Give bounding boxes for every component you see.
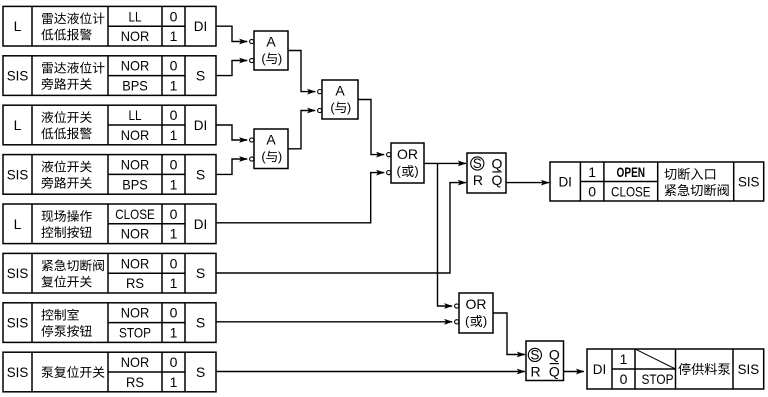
wire: row4 S output to AND A2 input 2	[216, 156, 254, 174]
svg-text:CLOSE: CLOSE	[115, 206, 155, 222]
svg-text:DI: DI	[558, 174, 572, 190]
svg-text:A: A	[335, 83, 345, 99]
svg-text:NOR: NOR	[121, 305, 150, 321]
wire: row1 DI output to AND A1 input 1	[216, 26, 254, 44]
output block O1: DI 1=OPEN 0=CLOSE 切断入口紧急切断阀 SIS	[550, 162, 764, 201]
svg-text:1: 1	[170, 28, 178, 44]
svg-text:SIS: SIS	[7, 364, 29, 380]
output block O2: DI 1=blank(N/A) 0=STOP 停供料泵 SIS	[587, 349, 764, 389]
svg-text:): )	[414, 164, 418, 179]
svg-text:0: 0	[170, 8, 178, 24]
svg-text:DI: DI	[194, 18, 208, 34]
svg-text:L: L	[14, 117, 22, 133]
SR flip-flop FF1 (set-dominant): S/R inputs, Q/Qbar outputs	[467, 153, 506, 193]
svg-text:L: L	[14, 216, 22, 232]
svg-text:(: (	[465, 314, 470, 329]
wire: A2 output to AND A3 input 2	[288, 108, 322, 149]
wire: row5 DI output to OR1 input 2	[216, 170, 391, 223]
svg-text:1: 1	[170, 78, 178, 94]
svg-text:A: A	[266, 34, 276, 50]
wire: OR2 output down to FF2 S input	[493, 313, 525, 357]
svg-text:STOP: STOP	[642, 371, 674, 387]
svg-text:0: 0	[170, 58, 178, 74]
input block row 7: SIS 控制室停泵按钮 NOR/STOP -> S	[3, 303, 216, 343]
svg-text:DI: DI	[194, 117, 208, 133]
svg-text:): )	[278, 149, 282, 164]
wire: branch from OR1 output node down to OR2 input 1	[438, 163, 459, 309]
svg-text:S: S	[196, 68, 205, 84]
svg-text:OR: OR	[466, 296, 487, 312]
svg-text:Q: Q	[492, 155, 503, 171]
svg-text:0: 0	[170, 107, 178, 123]
SR flip-flop FF2 (set-dominant): S/R inputs, Q/Qbar outputs	[526, 341, 564, 381]
svg-text:NOR: NOR	[121, 226, 150, 242]
wire: row3 DI output to AND A2 input 1	[216, 125, 254, 143]
svg-text:DI: DI	[593, 361, 607, 377]
svg-text:SIS: SIS	[738, 361, 760, 377]
svg-text:S: S	[196, 315, 205, 331]
svg-text:Q: Q	[549, 347, 560, 363]
svg-text:(: (	[397, 164, 402, 179]
svg-text:(: (	[261, 51, 266, 66]
svg-text:0: 0	[170, 255, 178, 271]
input block row 3: L 液位开关低低报警 LL/NOR -> DI	[3, 105, 216, 145]
svg-text:LL: LL	[129, 107, 142, 123]
svg-text:RS: RS	[126, 374, 144, 390]
svg-text:): )	[347, 100, 351, 115]
input block row 8: SIS 泵复位开关 NOR/RS -> S	[3, 352, 216, 392]
svg-text:DI: DI	[194, 216, 208, 232]
svg-text:1: 1	[170, 374, 178, 390]
svg-text:0: 0	[588, 183, 596, 199]
svg-text:Q: Q	[549, 364, 560, 380]
svg-text:0: 0	[170, 206, 178, 222]
svg-text:Q: Q	[492, 172, 503, 188]
svg-text:1: 1	[170, 325, 178, 341]
svg-text:SIS: SIS	[738, 174, 760, 190]
wire: FF1 Q output to output block DI (ESD valve)	[506, 180, 550, 186]
svg-text:NOR: NOR	[121, 157, 150, 173]
wire: row7 S output to OR2 input 2	[216, 319, 459, 325]
wire: A3 output to OR1 input 1	[358, 100, 391, 158]
wire: row6 S output up to FF1 R input	[216, 180, 466, 273]
svg-text:LL: LL	[129, 8, 142, 24]
svg-text:A: A	[266, 132, 276, 148]
AND gate A3	[322, 80, 358, 119]
svg-text:(: (	[330, 100, 335, 115]
AND gate A1	[254, 31, 288, 70]
input block row 1: L 雷达液位计低低报警 LL/NOR -> DI	[3, 6, 216, 46]
OR gate OR2	[459, 293, 493, 333]
svg-text:SIS: SIS	[7, 166, 29, 182]
svg-text:(: (	[261, 149, 266, 164]
input block row 2: SIS 雷达液位计旁路开关 NOR/BPS -> S	[3, 56, 216, 96]
wire: FF2 Q output to output block DI (feed pump)	[564, 369, 585, 375]
svg-text:SIS: SIS	[7, 315, 29, 331]
svg-text:NOR: NOR	[121, 354, 150, 370]
AND gate A2	[254, 129, 288, 169]
svg-text:RS: RS	[126, 275, 144, 291]
svg-text:S: S	[196, 265, 205, 281]
svg-text:R: R	[473, 172, 483, 188]
svg-text:1: 1	[620, 351, 628, 367]
svg-text:NOR: NOR	[121, 28, 150, 44]
svg-text:CLOSE: CLOSE	[611, 183, 651, 199]
svg-text:0: 0	[170, 157, 178, 173]
svg-text:NOR: NOR	[121, 127, 150, 143]
input block row 5: L 现场操作控制按钮 CLOSE/NOR -> DI	[3, 204, 216, 244]
svg-text:S: S	[196, 166, 205, 182]
svg-text:SIS: SIS	[7, 265, 29, 281]
OR gate OR1	[391, 143, 424, 183]
svg-text:1: 1	[170, 275, 178, 291]
svg-text:1: 1	[170, 127, 178, 143]
svg-text:OR: OR	[397, 146, 418, 162]
svg-text:BPS: BPS	[122, 78, 148, 94]
svg-text:L: L	[14, 18, 22, 34]
svg-text:R: R	[530, 364, 540, 380]
wire: A1 output to AND A3 input 1	[288, 51, 322, 95]
input block row 4: SIS 液位开关旁路开关 NOR/BPS -> S	[3, 155, 216, 195]
svg-text:S: S	[196, 364, 205, 380]
svg-text:0: 0	[170, 354, 178, 370]
svg-text:1: 1	[170, 176, 178, 192]
svg-text:): )	[483, 314, 487, 329]
svg-text:1: 1	[588, 164, 596, 180]
svg-text:NOR: NOR	[121, 58, 150, 74]
svg-text:SIS: SIS	[7, 68, 29, 84]
svg-text:0: 0	[170, 305, 178, 321]
wire: row2 S output to AND A1 input 2	[216, 58, 254, 76]
input block row 6: SIS 紧急切断阀复位开关 NOR/RS -> S	[3, 253, 216, 293]
svg-text:BPS: BPS	[122, 176, 148, 192]
svg-text:0: 0	[620, 371, 628, 387]
svg-text:OPEN: OPEN	[617, 164, 646, 180]
wire: OR1 output to FF1 S input (node branches down to OR2)	[424, 161, 466, 167]
svg-text:NOR: NOR	[121, 255, 150, 271]
svg-text:1: 1	[170, 226, 178, 242]
svg-text:): )	[278, 51, 282, 66]
wire: row8 S output to FF2 R input	[216, 369, 525, 375]
svg-text:STOP: STOP	[119, 325, 151, 341]
